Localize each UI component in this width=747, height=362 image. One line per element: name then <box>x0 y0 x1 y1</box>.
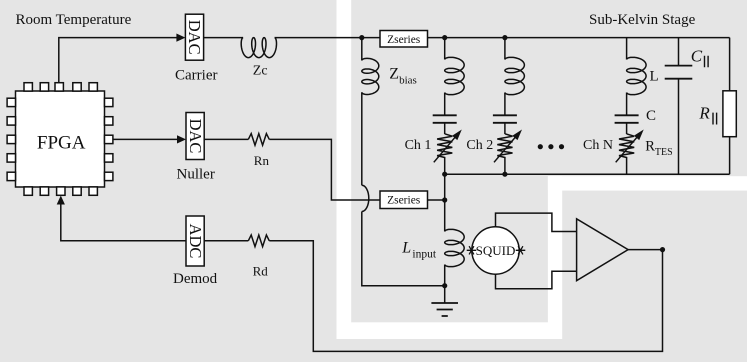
wire Rd to feedback bottom wire <box>269 241 662 352</box>
svg-text:C: C <box>646 108 656 124</box>
arrow into carrier DAC <box>176 34 185 42</box>
ADC demod box <box>186 216 204 266</box>
svg-text:Rn: Rn <box>254 153 270 168</box>
FPGA pins top <box>24 83 97 91</box>
wire channel 2 coil to capacitor <box>504 93 506 116</box>
junction node ground <box>442 283 447 288</box>
wire Zbias branch vertical upper <box>361 38 363 61</box>
wire ADC to FPGA bottom <box>61 203 186 241</box>
svg-text:Zseries: Zseries <box>387 195 421 207</box>
wire right edge lower <box>729 137 731 175</box>
junction node bottom rail at channel 1 <box>442 172 447 177</box>
svg-text:Zc: Zc <box>253 64 268 79</box>
svg-text:C: C <box>691 47 703 66</box>
arrow of variable resistor channel N <box>616 136 639 163</box>
wire FPGA right pin to nuller DAC <box>113 138 179 140</box>
ground <box>431 303 458 316</box>
wire lower Zseries output to junction <box>428 199 445 201</box>
wire channel 1 capacitor to resistor <box>444 123 446 134</box>
wire channel N capacitor to resistor <box>626 123 628 134</box>
wire C parallel branch lower <box>678 79 680 175</box>
inductor Zbias <box>362 58 379 94</box>
svg-text:DAC: DAC <box>185 20 204 55</box>
svg-text:Ch N: Ch N <box>583 138 613 153</box>
wire right edge upper <box>729 38 731 91</box>
DAC nuller box <box>186 113 204 160</box>
sub-Kelvin stage boundary (white stripe right step vertical) <box>548 176 562 339</box>
inductor channel 2 <box>505 57 525 94</box>
Zseries box upper <box>380 31 428 48</box>
svg-text:SQUID: SQUID <box>476 243 516 258</box>
variable resistor channel 2 <box>497 134 512 174</box>
svg-text:R: R <box>698 103 710 122</box>
wire op-amp output <box>628 249 662 251</box>
wire channel 2 vertical: rail to coil <box>504 38 506 60</box>
svg-text:Nuller: Nuller <box>177 166 215 182</box>
arrow of variable resistor channel 2 <box>494 136 517 163</box>
SQUID josephson junction right <box>516 246 526 254</box>
wire hop over Rn wire <box>362 185 369 211</box>
inductor L input <box>445 229 465 266</box>
inductor channel N (L) <box>627 57 647 94</box>
svg-text:Sub-Kelvin Stage: Sub-Kelvin Stage <box>589 12 696 28</box>
SQUID josephson junction left <box>467 246 477 254</box>
FPGA pins left <box>7 98 15 180</box>
wire Rn to lower Zseries (with corner) <box>269 139 380 200</box>
junction node lower Zseries output <box>442 197 447 202</box>
wire top rail (Zseries to right corner) <box>428 37 730 39</box>
FPGA pins bottom <box>24 187 97 195</box>
wire hop to bottom loop corner <box>362 212 445 286</box>
wire nuller DAC to Rn <box>204 138 248 140</box>
ellipsis dots between channels <box>538 144 543 149</box>
wire Zc to top rail junction <box>275 37 380 39</box>
wire carrier DAC to Zc <box>204 37 244 39</box>
wire Zbias to hop <box>361 92 363 185</box>
svg-text:ADC: ADC <box>186 224 205 259</box>
capacitor C parallel <box>665 66 693 79</box>
sub-Kelvin stage boundary (white stripe right step horizontal) <box>548 176 747 190</box>
svg-text:input: input <box>412 249 436 261</box>
DAC carrier box <box>185 14 203 60</box>
Zseries box lower <box>380 191 428 209</box>
wire channel N coil to capacitor <box>626 93 628 116</box>
SQUID loop wire top <box>496 213 577 231</box>
junction node top rail at Zbias <box>359 35 364 40</box>
FPGA chip body <box>16 91 105 187</box>
wire Rd from ADC <box>204 240 248 242</box>
wire C parallel branch upper <box>678 38 680 66</box>
variable resistor channel 1 (TES) <box>437 134 452 174</box>
capacitor channel 2 <box>493 115 517 123</box>
sub-Kelvin stage boundary (white stripe left) <box>337 0 352 339</box>
arrow into FPGA from ADC <box>57 196 65 205</box>
junction node top rail at channel 2 <box>502 35 507 40</box>
junction node top rail at channel 1 <box>442 35 447 40</box>
wire channel 1 below rail to lower Zseries junction <box>444 174 446 200</box>
svg-text:Room Temperature: Room Temperature <box>16 12 132 28</box>
svg-text:Demod: Demod <box>173 271 218 287</box>
wire channel 1 coil to capacitor <box>444 93 446 116</box>
SQUID body <box>472 227 519 274</box>
inductor channel 1 <box>445 57 465 94</box>
arrow into nuller DAC <box>177 135 186 143</box>
op-amp U1 <box>577 219 629 281</box>
svg-text:FPGA: FPGA <box>37 133 86 154</box>
junction node bottom rail at channel 2 <box>502 172 507 177</box>
FPGA pins right <box>105 98 113 180</box>
arrow of variable resistor channel 1 <box>434 136 457 163</box>
svg-text:L: L <box>401 240 411 257</box>
resistor R parallel <box>723 91 736 137</box>
wire FPGA top pin to carrier DAC <box>59 38 178 83</box>
svg-text:L: L <box>650 69 659 85</box>
junction node op-amp output <box>660 247 665 252</box>
ground stub <box>444 286 446 303</box>
wire channel 1 vertical: rail to coil <box>444 38 446 60</box>
svg-text:DAC: DAC <box>186 119 205 154</box>
capacitor channel 1 <box>433 115 457 123</box>
SQUID loop wire bottom <box>496 271 577 289</box>
wire channel N vertical: rail to coil <box>626 38 628 60</box>
capacitor channel N (C) <box>615 115 639 123</box>
wire L input to ground node <box>444 265 446 286</box>
svg-text:Ch 1: Ch 1 <box>405 138 432 153</box>
wire channel 2 capacitor to resistor <box>504 123 506 134</box>
svg-text:Ch 2: Ch 2 <box>466 138 493 153</box>
sub-Kelvin stage boundary (white stripe bottom) <box>337 322 562 339</box>
svg-text:Carrier: Carrier <box>175 68 217 84</box>
resistor Rn <box>248 134 269 146</box>
wire junction to L input coil <box>444 200 446 232</box>
resistor Rd <box>248 235 269 247</box>
inductor Zc <box>241 38 276 58</box>
svg-text:Rd: Rd <box>253 263 269 278</box>
bottom rail <box>445 173 730 175</box>
svg-text:Zseries: Zseries <box>387 34 421 46</box>
variable resistor channel N (R TES) <box>619 134 634 174</box>
